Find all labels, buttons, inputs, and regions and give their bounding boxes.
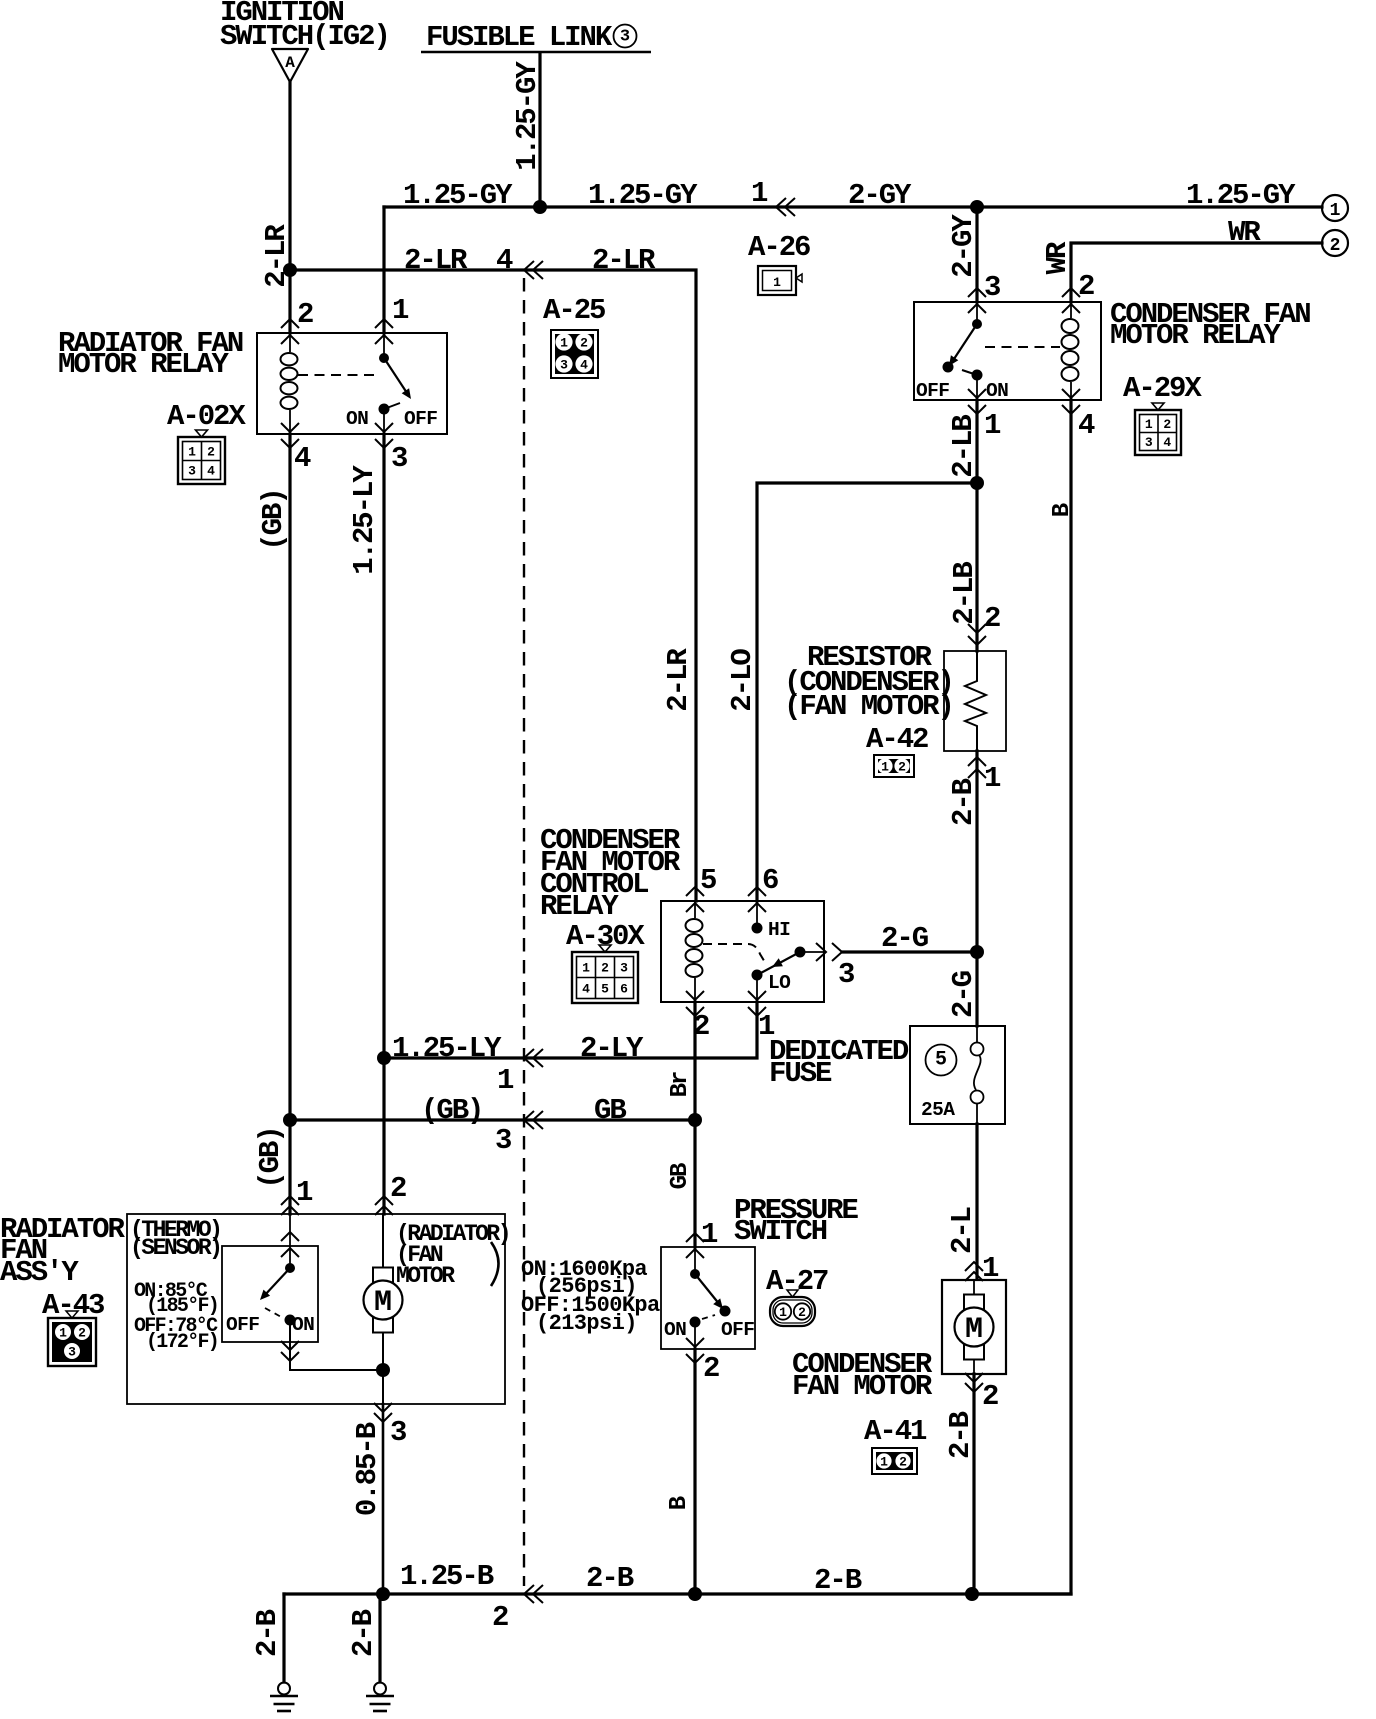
label 2-B below resistor [947,778,980,826]
label 2-L [946,1207,979,1254]
label MOTOR RELAY [58,348,230,381]
junction 2-G / 2-B [970,945,984,959]
resistor zigzag element [965,651,986,751]
svg-text:1: 1 [497,1064,514,1097]
wire 2-LY horizontal [384,1002,757,1058]
dashed connector boundary line A-25 [523,278,525,1586]
pin arrows resistor pin2 [968,624,986,645]
big closing paren radiator fan motor [491,1242,499,1286]
svg-text:(SENSOR): (SENSOR) [130,1235,220,1261]
wire pin2 to radiator fan motor [382,1214,384,1267]
pin arrows cond relay pin4 [1062,389,1080,414]
relay coil A-02X [281,333,298,434]
wire pin1 into thermo box [289,1214,291,1268]
pin 4 cond relay [1078,409,1095,442]
label (185'F) [146,1295,218,1318]
pin 5 ctrl relay [700,864,716,897]
ignition switch (IG2) source symbol with A [272,49,308,82]
svg-text:1.25-LY: 1.25-LY [348,465,381,575]
label 1.25-GY left [403,179,513,212]
svg-text:4: 4 [207,464,215,479]
svg-text:2-LY: 2-LY [580,1032,644,1065]
resistor (condenser fan motor) box [944,651,1006,751]
label FAN assy [0,1234,47,1267]
connector arrow A-25 on 2-LR [524,261,543,279]
wire Br/GB ctrl relay pin2 to pressure switch [693,1002,696,1247]
wire 2-LR horizontal [290,270,696,901]
label 2-GY top [848,179,912,212]
label PRESSURE [734,1194,858,1227]
pin arrows ctrl relay pin6 [748,887,766,912]
circle terminal 2 [1322,230,1348,256]
label RADIATOR FAN [58,327,243,360]
svg-text:2: 2 [580,336,588,351]
label 1.25-GY vertical [511,61,544,171]
wire 2-LB from cond relay pin1 down [975,400,978,651]
svg-text:3: 3 [620,961,628,976]
wire 2-GY drop to condenser fan relay [975,207,978,302]
condenser fan motor control relay box [661,901,824,1002]
wire 2-LO branch to control relay pin6 [757,483,977,901]
svg-text:25A: 25A [921,1099,955,1121]
connector icon A-26 [758,266,802,295]
label CONTROL ctrl [540,868,648,901]
svg-text:0.85-B: 0.85-B [351,1422,384,1516]
pin 2 cond fan motor [982,1380,998,1413]
svg-text:WR: WR [1041,241,1074,274]
wire B pressure switch down [693,1349,696,1594]
pin arrows assy pin3 [374,1403,392,1422]
svg-text:3: 3 [984,271,1000,304]
svg-text:A-41: A-41 [864,1415,927,1448]
label ON A-29X [986,380,1008,402]
svg-text:HI: HI [768,919,790,941]
svg-text:A-42: A-42 [866,723,928,756]
label GB vertical [667,1163,694,1189]
svg-text:2-B: 2-B [947,778,980,826]
label 1.25-LY [348,465,381,575]
svg-text:(213psi): (213psi) [536,1311,637,1336]
label (RADIATOR) [396,1221,509,1247]
wire (GB) continue to thermo sensor [288,1120,291,1214]
svg-text:1: 1 [751,177,768,210]
svg-text:2-B: 2-B [586,1562,634,1595]
fuse element [971,1026,984,1124]
pin 1 radiator relay [392,294,409,327]
svg-text:1: 1 [582,961,590,976]
condenser fan motor box [942,1280,1006,1374]
pressure switch contact [690,1247,731,1349]
svg-text:A-02X: A-02X [167,400,246,433]
label (THERMO) [130,1217,220,1243]
label OFF A-02X [404,408,437,430]
label 2-G [881,922,928,955]
label GB horizontal [594,1094,626,1127]
wire inside cond motor box lower [973,1360,975,1374]
pin arrows pressure pin1 [686,1233,704,1258]
label A-02X [167,400,246,433]
svg-text:1.25-B: 1.25-B [400,1560,494,1593]
pin 3 cond relay [984,271,1000,304]
pin 3 radiator relay [391,442,407,475]
relay switch A-02X [379,333,412,434]
svg-text:LO: LO [768,972,791,994]
pin 4 radiator relay [294,442,311,475]
svg-text:2: 2 [601,961,609,976]
svg-text:GB: GB [594,1094,626,1127]
label FAN MOTOR bottom [792,1370,933,1403]
svg-text:3: 3 [1145,435,1153,450]
pin arrows relay pin1 [375,319,393,344]
label B pressure [666,1496,693,1510]
connector arrow A-26 on GY bus [776,198,795,216]
junction GB [283,1113,297,1127]
label OFF A-29X [916,380,949,402]
wire 1.25-GY drop to radiator fan relay [382,207,385,333]
label A-42 [866,723,928,756]
label RELAY ctrl [540,890,619,923]
svg-text:1: 1 [701,1218,718,1251]
junction 2-GY drop [970,200,984,214]
label FAN MOTOR ctrl [540,846,681,879]
label RESISTOR [807,641,932,674]
svg-text:ON: ON [664,1319,686,1341]
label WR horizontal [1228,216,1261,249]
connector icon A-25 [551,330,598,378]
wire motor to junction [382,1334,384,1370]
svg-text:2-LO: 2-LO [726,649,759,712]
svg-text:1: 1 [773,275,781,290]
condenser fan motor M [955,1295,994,1360]
label 1 pin on 2-LY [497,1064,514,1097]
label WR vertical [1041,241,1074,274]
connector icon A-42 [874,755,914,777]
label 1.25-GY mid [588,179,698,212]
pin 2 assy [390,1172,406,1205]
label A-29X [1123,372,1202,405]
label MOTOR ) [396,1263,455,1289]
label 1.25-GY right [1186,179,1296,212]
pin arrows relay pin4 [281,423,299,448]
svg-text:1.25-GY: 1.25-GY [511,61,544,171]
pin 2 ctrl relay [693,1010,709,1043]
wire WR from terminal 2 [1071,243,1322,302]
connector icon A-30X [572,945,638,1003]
svg-text:5: 5 [935,1049,947,1072]
pin 1 pressure [701,1218,718,1251]
pin 1 resistor [984,762,1001,795]
wire 0.85-B down [382,1404,385,1594]
svg-text:1: 1 [188,445,196,460]
connector icon A-41 [872,1448,917,1474]
label 2-B ground left [251,1609,284,1657]
svg-text:1: 1 [881,760,889,775]
relay coil A-30X [686,901,703,1002]
pin 3 assy [390,1416,406,1449]
label B right [1049,503,1076,517]
junction 1.25-LY / 2-LY [377,1051,391,1065]
relay switch A-29X [943,302,983,400]
label RADIATOR assy [0,1213,125,1246]
svg-text:SWITCH: SWITCH [734,1215,827,1248]
svg-text:A-27: A-27 [766,1265,828,1298]
svg-text:FUSIBLE LINK: FUSIBLE LINK [426,21,613,54]
label A-27 [766,1265,828,1298]
label ON A-02X [346,408,368,430]
pin arrows ctrl relay pin5 [686,887,704,912]
junction 2-LB / 2-LO [970,476,984,490]
pin 1 ctrl relay [758,1010,775,1043]
svg-text:2: 2 [1163,417,1171,432]
svg-text:4: 4 [582,982,590,997]
svg-text:2-GY: 2-GY [947,214,980,278]
svg-text:2-LR: 2-LR [260,224,293,288]
wire 1.25-LY from relay pin3 down [382,434,385,1058]
wire 2-B cond motor down [972,1374,975,1594]
connector arrow on GB [524,1111,543,1129]
svg-text:2: 2 [984,602,1000,635]
pin arrows cond fan motor pin2 [965,1373,983,1392]
svg-text:SWITCH(IG2): SWITCH(IG2) [220,20,389,53]
svg-text:2-LB: 2-LB [947,415,980,478]
svg-text:2-B: 2-B [347,1609,380,1657]
junction pressure B / 2-B [688,1587,702,1601]
svg-text:2-LR: 2-LR [404,244,468,277]
label OFF pressure [721,1319,754,1341]
label (GB) horizontal [421,1094,482,1127]
svg-text:2: 2 [390,1172,406,1205]
svg-text:RELAY: RELAY [540,890,619,923]
svg-text:ON: ON [346,408,368,430]
pin arrows pressure pin2 [686,1338,704,1363]
label ON thermo [292,1314,314,1336]
pin arrows assy pin1 [281,1196,299,1215]
svg-text:3: 3 [560,358,568,373]
svg-text:4: 4 [1163,435,1171,450]
pin 1 cond fan motor [982,1252,999,1285]
wire 1.25-GY from fusible link down [538,53,541,207]
label A-41 [864,1415,927,1448]
fusible link underline [421,51,651,54]
label 2-LB lower [948,562,981,625]
pin 2 cond relay [1078,270,1094,303]
svg-text:2-L: 2-L [946,1207,979,1254]
label 2-G vertical [947,971,980,1018]
svg-text:4: 4 [294,442,311,475]
relay A-02X coil-switch dashed link [298,374,380,376]
label 2-B cond motor [944,1411,977,1459]
svg-text:MOTOR RELAY: MOTOR RELAY [1110,319,1282,352]
svg-text:OFF: OFF [721,1319,754,1341]
svg-text:A-30X: A-30X [566,920,645,953]
svg-text:6: 6 [762,864,778,897]
svg-text:1: 1 [880,1455,888,1470]
svg-text:5: 5 [601,982,609,997]
label 1.25-LY horizontal [392,1032,502,1065]
svg-text:1: 1 [984,762,1001,795]
svg-text:4: 4 [496,244,513,277]
label A-26 [748,231,810,264]
label 3 pin on GB [495,1124,511,1157]
junction ignition / 2-LR [283,263,297,277]
label FUSIBLE LINK [426,21,613,54]
wire 2-B to left ground [282,1594,285,1682]
svg-text:2: 2 [898,760,906,775]
svg-text:(GB): (GB) [257,489,290,550]
label ASS'Y [0,1256,79,1289]
radiator fan assy box [127,1214,505,1404]
svg-text:1: 1 [984,409,1001,442]
pin arrows cond relay pin2 [1062,288,1080,313]
label 2-LR mid [404,244,468,277]
connector icon A-27 oval [770,1290,815,1326]
svg-text:B: B [666,1496,693,1510]
radiator fan motor relay box [257,333,447,434]
svg-text:1: 1 [296,1176,313,1209]
wire junction to assy pin3 [382,1370,384,1404]
label 2-LY [580,1032,644,1065]
connector arrow on 2-B [524,1585,543,1603]
svg-text:ON: ON [986,380,1008,402]
label OFF:1500Kpa [521,1293,660,1318]
label 2-LO [726,649,759,712]
pin 1 cond relay [984,409,1001,442]
junction thermo/motor [376,1363,390,1377]
svg-text:Br: Br [667,1072,694,1097]
wire 2-G from ctrl relay [843,950,977,953]
svg-text:1: 1 [59,1326,67,1341]
pin arrows thermo inner top [281,1232,299,1257]
label 2-B mid [586,1562,634,1595]
label OFF:78'C [134,1315,218,1338]
svg-text:4: 4 [580,358,588,373]
svg-text:5: 5 [700,864,716,897]
pin arrows relay pin3 [375,423,393,448]
relay switch A-30X HI/LO [752,901,806,1002]
wire GB horizontal [290,1118,695,1121]
label 2-B ground right [347,1609,380,1657]
pin 1 assy [296,1176,313,1209]
label ON:1600Kpa [521,1257,647,1282]
label (SENSOR) [130,1235,220,1261]
svg-text:WR: WR [1228,216,1261,249]
svg-text:3: 3 [391,442,407,475]
wire thermo to motor junction [290,1322,383,1370]
label (172'F) [146,1331,218,1354]
svg-text:2: 2 [78,1326,86,1341]
svg-text:(GB): (GB) [421,1094,482,1127]
wire 1.25-LY continue to fan motor [382,1058,385,1214]
svg-text:2: 2 [207,445,215,460]
wire 2-LR stub to relay pin2 [288,270,291,333]
svg-text:ASS'Y: ASS'Y [0,1256,79,1289]
label HI [768,919,790,941]
circled 3 of fusible link [614,25,637,48]
pin arrows ctrl relay pin2 [686,991,704,1016]
relay A-29X coil-switch dashed link [985,346,1060,348]
svg-text:2: 2 [798,1305,806,1320]
svg-text:2-B: 2-B [251,1609,284,1657]
wire 2-B to right ground [378,1594,381,1682]
svg-text:A-26: A-26 [748,231,810,264]
svg-text:ON: ON [292,1314,314,1336]
svg-text:2: 2 [899,1455,907,1470]
wire B right side [972,400,1071,1594]
relay A-30X coil-switch dashed link [703,944,766,964]
svg-text:OFF: OFF [404,408,437,430]
svg-text:1: 1 [560,336,568,351]
svg-text:(172°F): (172°F) [146,1331,218,1354]
label MOTOR RELAY right [1110,319,1282,352]
label 2-LR right [592,244,656,277]
connector icon A-29X [1135,403,1181,455]
svg-text:2: 2 [1330,236,1341,256]
wire 2-L from fuse down [975,1124,978,1278]
svg-text:2-G: 2-G [947,971,980,1018]
pin 2 radiator relay [297,298,313,331]
svg-text:1.25-GY: 1.25-GY [1186,179,1296,212]
svg-text:2-LB: 2-LB [948,562,981,625]
ctrl relay output arrows to pin3 [800,943,842,961]
svg-text:B: B [1049,503,1076,517]
svg-text:M: M [374,1286,392,1320]
wire 1.25-GY top bus horizontal [384,205,1322,208]
svg-text:3: 3 [188,464,196,479]
pressure switch box [661,1247,755,1349]
label LO [768,972,791,994]
svg-text:FAN MOTOR: FAN MOTOR [792,1370,933,1403]
label A-30X [566,920,645,953]
label 2-LR vertical mid [662,648,695,712]
wire (GB) from relay pin4 down [288,434,291,1120]
connector arrow on 2-LY [524,1049,543,1067]
connector icon A-02X [178,430,225,484]
junction 0.85-B / 2-B [376,1587,390,1601]
svg-text:OFF: OFF [226,1314,259,1336]
label 4 pin A-25 [496,244,513,277]
label 2 pin on 2-B [492,1601,508,1634]
pin arrows ctrl relay pin1 [748,991,766,1016]
relay coil A-29X [1062,302,1079,400]
ground left [270,1683,298,1712]
label 2-B right [814,1564,862,1597]
svg-text:3: 3 [838,958,854,991]
wire 2-B from resistor down [975,751,978,1026]
svg-text:2: 2 [297,298,313,331]
label 1 pin A-26 [751,177,768,210]
label IGNITION [220,0,343,29]
svg-text:1.25-LY: 1.25-LY [392,1032,502,1065]
pin arrows cond relay pin3 [968,288,986,313]
label 0.85-B [351,1422,384,1516]
label DEDICATED [769,1035,909,1068]
pin arrows resistor pin1 [968,757,986,778]
wire 2-LR from ignition switch [288,81,291,270]
label 25A [921,1099,955,1121]
svg-text:M: M [965,1313,983,1347]
junction cond motor / 2-B [965,1587,979,1601]
svg-text:A-29X: A-29X [1123,372,1202,405]
svg-text:(FAN MOTOR): (FAN MOTOR) [784,690,953,723]
label ON pressure [664,1319,686,1341]
svg-text:2: 2 [982,1380,998,1413]
svg-text:2: 2 [1078,270,1094,303]
svg-text:2-LR: 2-LR [662,648,695,712]
label SWITCH(IG2) [220,20,389,53]
svg-text:(GB): (GB) [254,1127,287,1188]
label A-43 [42,1289,104,1322]
label 2-GY vertical [947,214,980,278]
